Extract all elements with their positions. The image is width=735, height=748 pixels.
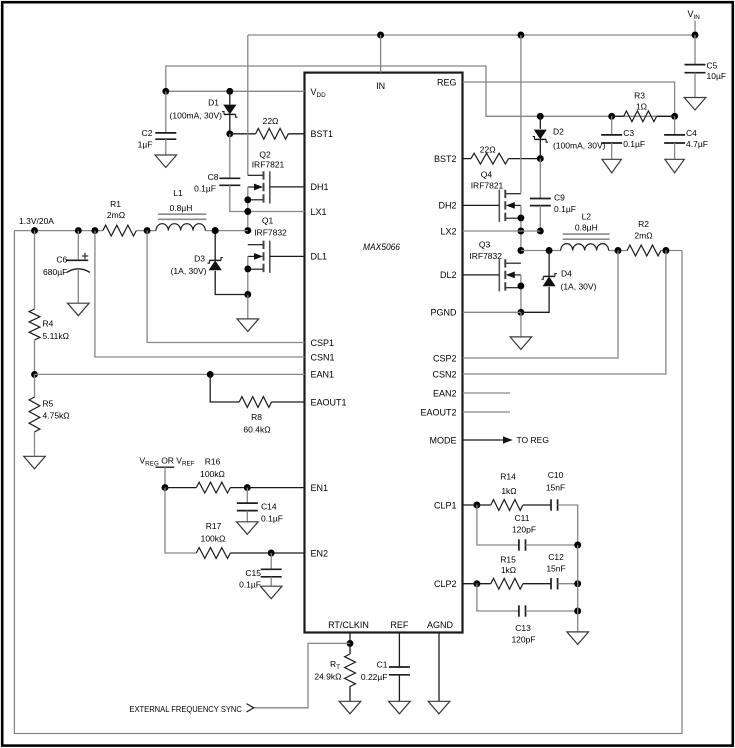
junction Q1 node <box>244 227 251 234</box>
capacitor C12 <box>550 578 552 589</box>
svg-text:EAN1: EAN1 <box>311 370 335 380</box>
svg-text:RT/CLKIN: RT/CLKIN <box>328 620 369 630</box>
junction L2 D4 <box>546 247 553 254</box>
svg-text:L1: L1 <box>173 188 183 198</box>
svg-text:IN: IN <box>376 81 385 91</box>
junction C12 bus <box>574 580 581 587</box>
svg-text:0.1µF: 0.1µF <box>623 139 645 149</box>
svg-text:0.1µF: 0.1µF <box>261 513 283 523</box>
inductor L2 <box>561 244 609 251</box>
junction IN drop <box>377 32 384 39</box>
svg-text:C13: C13 <box>515 623 531 633</box>
wire C14 branch <box>246 488 248 504</box>
svg-text:REF: REF <box>390 620 409 630</box>
capacitor C11 <box>518 539 520 550</box>
ground RT <box>339 701 361 714</box>
svg-text:100kΩ: 100kΩ <box>201 533 226 543</box>
resistor 22ohm BST1 <box>256 128 289 139</box>
resistor R4 <box>29 309 40 340</box>
svg-text:0.1µF: 0.1µF <box>239 579 261 589</box>
svg-text:60.4kΩ: 60.4kΩ <box>243 424 270 434</box>
wire C4 to ground <box>674 143 676 159</box>
junction rail CSP1 <box>144 227 151 234</box>
wire Q4 drain spine <box>520 35 522 193</box>
wire Q1 spine <box>247 256 249 294</box>
resistor R15 <box>491 578 523 589</box>
svg-text:R3: R3 <box>634 91 645 101</box>
svg-text:1µF: 1µF <box>138 140 153 150</box>
svg-text:(100mA, 30V): (100mA, 30V) <box>553 141 606 151</box>
svg-text:D3: D3 <box>194 254 205 264</box>
wire PGND <box>463 311 521 313</box>
resistor 22ohm BST2 <box>471 153 509 164</box>
wire C13 right <box>526 610 578 612</box>
junction L2 CSP2 <box>615 247 622 254</box>
svg-text:C10: C10 <box>548 470 564 480</box>
svg-text:LX1: LX1 <box>311 207 327 217</box>
IC U1 MAX5066 body <box>305 73 463 633</box>
junction Q4 source <box>517 214 524 221</box>
svg-text:Q2: Q2 <box>259 150 271 160</box>
junction VDD-C2 <box>162 88 169 95</box>
resistor R17 <box>196 548 230 559</box>
resistor RT <box>345 654 356 687</box>
capacitor C2 <box>155 132 176 134</box>
wire ext sync route <box>254 643 351 707</box>
junction Q2 source <box>244 196 251 203</box>
wire C9 top <box>539 159 541 199</box>
wire DH2 gate <box>463 204 500 206</box>
junction VIN <box>692 32 699 39</box>
wire D3 bottom <box>215 271 248 295</box>
transistor Q1 <box>248 244 264 246</box>
svg-text:C14: C14 <box>261 502 277 512</box>
svg-text:PGND: PGND <box>430 308 457 318</box>
wire R5 bottom lead <box>34 432 36 456</box>
junction BST2 D2 <box>537 155 544 162</box>
svg-text:C4: C4 <box>686 128 697 138</box>
svg-text:D4: D4 <box>561 269 572 279</box>
capacitor C6 <box>66 259 88 261</box>
node VIN top rail wire <box>248 34 695 36</box>
wire BST2 right lead <box>509 158 541 160</box>
ground CLP <box>567 632 589 645</box>
svg-text:C2: C2 <box>142 128 153 138</box>
ground R5 <box>24 456 46 469</box>
wire VIN stub <box>694 21 696 36</box>
svg-text:R16: R16 <box>205 457 221 467</box>
wire CLP2 lead <box>463 583 491 585</box>
svg-text:0.1µF: 0.1µF <box>554 204 576 214</box>
wire output rail segs <box>14 230 102 232</box>
svg-text:22Ω: 22Ω <box>263 116 279 126</box>
transistor Q4 <box>505 193 521 195</box>
svg-text:DH1: DH1 <box>311 182 329 192</box>
junction R3 left <box>608 113 615 120</box>
junction Q3 source <box>517 282 524 289</box>
svg-text:Q1: Q1 <box>262 216 274 226</box>
svg-text:2mΩ: 2mΩ <box>107 210 125 220</box>
svg-text:EN2: EN2 <box>311 548 329 558</box>
junction EN1 left <box>162 484 169 491</box>
svg-text:EXTERNAL FREQUENCY SYNC: EXTERNAL FREQUENCY SYNC <box>129 704 242 714</box>
wire RT bottom lead <box>349 687 351 702</box>
wire C8 branch <box>229 134 231 179</box>
wire D1 anode <box>229 91 231 104</box>
capacitor C3 <box>601 134 622 136</box>
wire BST2 left lead <box>463 158 471 160</box>
wire D2 cathode <box>539 139 541 158</box>
wire BST1 left lead <box>230 133 256 135</box>
wire DL2 gate <box>463 274 500 276</box>
wire EAN1 <box>35 373 305 375</box>
capacitor C15 <box>261 568 282 570</box>
wire C14 to ground <box>246 511 248 522</box>
svg-text:MODE: MODE <box>430 435 457 445</box>
junction RT <box>347 640 354 647</box>
wire MODE <box>463 439 504 441</box>
svg-text:24.9kΩ: 24.9kΩ <box>314 672 341 682</box>
ground C3 <box>602 159 621 173</box>
svg-text:L2: L2 <box>582 212 592 222</box>
diode D3 <box>209 260 222 270</box>
svg-text:C3: C3 <box>623 128 634 138</box>
svg-text:C6: C6 <box>56 255 67 265</box>
junction CLP2 left <box>473 580 480 587</box>
svg-text:C1: C1 <box>377 660 388 670</box>
wire DL1 gate <box>270 255 305 257</box>
ground REF <box>389 701 411 714</box>
ground C6 <box>68 303 90 316</box>
svg-text:(100mA, 30V): (100mA, 30V) <box>170 111 223 121</box>
wire REF stub <box>398 633 400 668</box>
capacitor C14 <box>237 502 258 504</box>
svg-text:1kΩ: 1kΩ <box>501 565 516 575</box>
capacitor C4 <box>664 134 685 136</box>
wire C1 to ground <box>398 675 400 702</box>
junction VDD-D1 <box>226 88 233 95</box>
svg-text:Q4: Q4 <box>481 169 493 179</box>
svg-text:CLP1: CLP1 <box>434 500 457 510</box>
junction Q1 source <box>244 265 251 272</box>
junction Q4 spine top <box>517 32 524 39</box>
wire PGND ground stem <box>520 312 522 337</box>
svg-text:15nF: 15nF <box>546 483 565 493</box>
diode D4 <box>543 276 556 286</box>
svg-text:TO REG: TO REG <box>517 435 549 445</box>
junction LX2 spine <box>517 228 524 235</box>
junction rail CSN1 <box>91 227 98 234</box>
wire D1 cathode <box>229 114 231 133</box>
wire C9 bottom <box>539 206 541 231</box>
wire CLP1 lead <box>463 504 491 506</box>
svg-text:CLP2: CLP2 <box>434 579 457 589</box>
wire C3 to ground <box>611 143 613 159</box>
svg-text:CSN2: CSN2 <box>432 369 456 379</box>
svg-text:120pF: 120pF <box>512 524 536 534</box>
wire C12 right <box>558 583 578 585</box>
wire C6 branch <box>77 231 79 261</box>
svg-text:DL2: DL2 <box>440 270 457 280</box>
wire D2 anode <box>539 116 541 129</box>
ground Q1 <box>237 319 259 332</box>
junction R2 CSN2 <box>662 247 669 254</box>
svg-text:BST2: BST2 <box>434 154 457 164</box>
ground C5 <box>684 98 706 111</box>
svg-text:D1: D1 <box>208 97 219 107</box>
wire C6 to ground <box>77 269 79 303</box>
MODE arrow <box>503 436 513 443</box>
junction Q3 node <box>517 247 524 254</box>
wire Q2 drain spine <box>247 35 249 175</box>
wire output bus left-bottom-right <box>14 231 682 734</box>
transistor Q2 <box>248 174 264 176</box>
svg-text:C5: C5 <box>707 60 718 70</box>
svg-text:15nF: 15nF <box>546 563 565 573</box>
svg-text:REG: REG <box>437 77 457 87</box>
junction rail C6 <box>75 227 82 234</box>
svg-text:IRF7821: IRF7821 <box>471 181 504 191</box>
junction PGND <box>517 309 524 316</box>
ground AGND <box>428 701 450 714</box>
svg-text:C11: C11 <box>515 513 530 523</box>
diode D1 <box>223 105 236 115</box>
wire EN2 drop <box>165 488 196 553</box>
resistor R3 <box>624 111 657 122</box>
svg-text:Q3: Q3 <box>479 240 491 250</box>
wire R8 right <box>272 401 305 403</box>
wire REG <box>463 82 675 116</box>
junction BST1 <box>226 130 233 137</box>
capacitor C13 <box>518 605 520 616</box>
ground PGND <box>510 337 532 350</box>
wire EN2 right lead <box>230 552 304 554</box>
svg-text:0.22µF: 0.22µF <box>361 672 388 682</box>
wire RT/CLKIN stub <box>349 633 351 644</box>
junction EN1 C14 <box>244 484 251 491</box>
svg-text:CSP1: CSP1 <box>311 338 335 348</box>
wire C10 right <box>558 505 578 545</box>
junction C13 bus <box>574 608 581 615</box>
wire AGND stub <box>438 633 440 702</box>
ground C4 <box>665 159 684 173</box>
junction rail R4 <box>31 227 38 234</box>
svg-text:5.11kΩ: 5.11kΩ <box>43 331 70 341</box>
svg-text:100kΩ: 100kΩ <box>200 469 225 479</box>
wire D4 top <box>548 251 550 277</box>
wire CSN2 <box>463 251 666 375</box>
svg-text:D2: D2 <box>553 126 564 136</box>
svg-text:R4: R4 <box>43 319 54 329</box>
svg-text:R5: R5 <box>43 398 54 408</box>
wire DH1 gate <box>270 186 305 188</box>
svg-text:4.75kΩ: 4.75kΩ <box>43 411 70 421</box>
wire C4 branch <box>674 116 676 135</box>
wire LX2 <box>463 230 541 232</box>
svg-text:EAN2: EAN2 <box>433 388 457 398</box>
wire VREG stem <box>164 467 166 487</box>
wire Q2 source spine <box>247 187 249 231</box>
svg-text:DH2: DH2 <box>438 201 456 211</box>
wire R14-C10 <box>523 504 551 506</box>
svg-text:22Ω: 22Ω <box>480 144 496 154</box>
junction LX1 spine <box>244 208 251 215</box>
wire Q1 ground stem <box>247 295 249 319</box>
svg-text:2mΩ: 2mΩ <box>634 230 652 240</box>
wire R4 top lead <box>34 231 36 309</box>
junction D2 anode <box>537 113 544 120</box>
wire IN drop <box>380 35 382 73</box>
inductor L1 <box>156 224 205 231</box>
VREG supply bar <box>156 466 175 468</box>
wire CSP2 <box>463 251 618 359</box>
wire R8 left <box>210 374 239 402</box>
wire D4 bottom <box>521 287 549 312</box>
capacitor C6 plus sign <box>82 255 88 257</box>
junction EN2 C15 <box>268 550 275 557</box>
resistor R5 <box>29 397 40 432</box>
svg-text:CSN1: CSN1 <box>311 352 335 362</box>
junction rail L1 right <box>212 227 219 234</box>
wire C5 to ground <box>694 73 696 98</box>
wire EAN2 stub <box>463 392 510 394</box>
resistor R2 <box>627 245 661 256</box>
svg-text:1Ω: 1Ω <box>636 102 647 112</box>
wire Q4 source spine <box>520 205 522 250</box>
wire C13 branch <box>477 584 519 611</box>
svg-text:EAOUT2: EAOUT2 <box>420 407 456 417</box>
svg-text:R15: R15 <box>500 555 516 565</box>
wire BST1 right lead <box>288 133 304 135</box>
wire C11 right <box>526 544 578 546</box>
svg-text:0.8µH: 0.8µH <box>170 203 193 213</box>
svg-text:1kΩ: 1kΩ <box>501 486 516 496</box>
svg-text:0.1µF: 0.1µF <box>194 184 216 194</box>
svg-text:DL1: DL1 <box>311 252 328 262</box>
svg-text:IRF7832: IRF7832 <box>254 228 287 238</box>
svg-text:C9: C9 <box>554 192 565 202</box>
svg-text:R2: R2 <box>638 219 649 229</box>
wire VDD-REG route <box>166 66 675 116</box>
svg-text:BST1: BST1 <box>311 129 334 139</box>
wire CSP1 <box>147 231 304 343</box>
wire C2 to ground <box>165 139 167 155</box>
svg-text:R1: R1 <box>110 199 121 209</box>
ground C2 <box>155 155 177 168</box>
svg-text:680µF: 680µF <box>43 267 67 277</box>
wire C15 branch <box>270 553 272 569</box>
wire D3 top <box>214 231 216 261</box>
svg-text:R17: R17 <box>206 521 222 531</box>
svg-text:10µF: 10µF <box>707 71 727 81</box>
svg-text:C8: C8 <box>208 172 219 182</box>
svg-text:C15: C15 <box>245 568 261 578</box>
svg-text:AGND: AGND <box>427 620 454 630</box>
junction C10-C11 <box>574 542 581 549</box>
svg-text:0.8µH: 0.8µH <box>575 223 598 233</box>
svg-text:R14: R14 <box>500 472 516 482</box>
wire Q3 spine <box>520 275 522 312</box>
resistor R16 <box>196 482 230 493</box>
capacitor C5 <box>685 64 706 66</box>
wire LX1 <box>230 185 305 211</box>
wire R4 bottom lead <box>34 340 36 374</box>
junction CLP1 left <box>473 502 480 509</box>
transistor Q3 <box>505 262 521 264</box>
wire R3 leads <box>612 115 624 117</box>
svg-text:MAX5066: MAX5066 <box>363 242 400 252</box>
wire EN1 right lead <box>230 487 304 489</box>
junction REG-R3 right <box>671 113 678 120</box>
wire VDD <box>166 90 305 92</box>
svg-text:4.7µF: 4.7µF <box>686 139 708 149</box>
wire C2 branch <box>165 91 167 133</box>
svg-text:C12: C12 <box>548 552 564 562</box>
wire L2 node segs <box>521 250 561 252</box>
svg-text:1.3V/20A: 1.3V/20A <box>19 216 54 226</box>
wire CLP ground bus <box>577 545 579 632</box>
junction EAN1 divider <box>31 371 38 378</box>
svg-text:CSP2: CSP2 <box>433 353 457 363</box>
junction C9 LX2 <box>537 228 544 235</box>
svg-text:(1A, 30V): (1A, 30V) <box>561 282 597 292</box>
resistor R8 <box>239 397 271 408</box>
ground C14 <box>237 522 259 535</box>
wire C15 to ground <box>270 577 272 586</box>
capacitor C10 <box>550 499 552 510</box>
diode D2 <box>534 130 547 140</box>
svg-text:EN1: EN1 <box>311 483 329 493</box>
wire CSN1 <box>95 231 305 357</box>
junction EAN1 R8 <box>207 371 214 378</box>
wire RT top lead <box>349 643 351 654</box>
svg-text:IRF7832: IRF7832 <box>469 251 502 261</box>
capacitor C9 <box>530 198 551 200</box>
ground C15 <box>260 586 282 599</box>
svg-text:LX2: LX2 <box>440 226 456 236</box>
capacitor C8 <box>219 177 240 179</box>
wire EN1 left lead <box>165 487 196 489</box>
wire EAOUT2 stub <box>463 411 510 413</box>
wire R15-C12 <box>523 583 551 585</box>
wire R5 top lead <box>34 374 36 397</box>
wire C5 branch <box>694 35 696 65</box>
junction Q1 gnd node <box>244 291 251 298</box>
svg-text:R8: R8 <box>251 412 262 422</box>
junction D3 top <box>212 227 219 234</box>
resistor R1 <box>103 225 137 236</box>
svg-text:(1A, 30V): (1A, 30V) <box>171 266 207 276</box>
svg-text:EAOUT1: EAOUT1 <box>311 397 347 407</box>
resistor R14 <box>491 500 523 511</box>
wire C3 branch <box>611 116 613 135</box>
svg-text:120pF: 120pF <box>511 634 535 644</box>
svg-text:IRF7821: IRF7821 <box>252 160 285 170</box>
wire C11 branch <box>477 505 519 545</box>
EXTERNAL FREQUENCY SYNC arrow <box>247 704 254 712</box>
capacitor C1 <box>389 666 410 668</box>
